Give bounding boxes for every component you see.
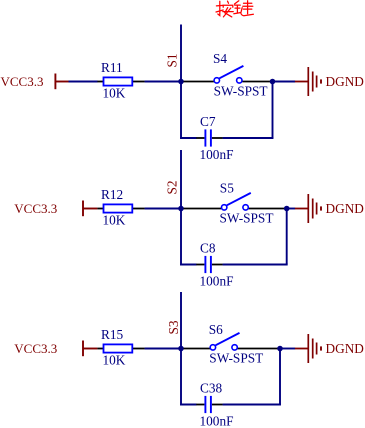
svg-text:S4: S4 — [213, 51, 227, 66]
junction right of S6 — [277, 346, 283, 352]
svg-text:100nF: 100nF — [200, 147, 234, 162]
wire loop right vertical — [279, 349, 281, 405]
junction right of S5 — [284, 206, 290, 212]
svg-text:DGND: DGND — [326, 341, 365, 356]
wire loop bottom right — [223, 404, 281, 406]
svg-text:R15: R15 — [101, 327, 124, 342]
title text 按键 — [216, 1, 253, 17]
svg-text:S5: S5 — [220, 181, 234, 196]
svg-text:DGND: DGND — [326, 74, 365, 89]
resistor R11 — [97, 60, 144, 86]
svg-text:DGND: DGND — [326, 201, 365, 216]
svg-text:S6: S6 — [209, 322, 223, 337]
svg-text:100nF: 100nF — [200, 414, 234, 428]
wire net stub S3 — [180, 292, 182, 349]
ground DGND — [295, 334, 364, 363]
switch S6 — [184, 322, 279, 350]
svg-text:VCC3.3: VCC3.3 — [1, 74, 44, 89]
svg-text:10K: 10K — [103, 86, 126, 101]
svg-text:10K: 10K — [103, 353, 126, 368]
wire switch to DGND — [287, 208, 296, 210]
svg-text:C7: C7 — [200, 114, 216, 129]
svg-text:C8: C8 — [200, 241, 216, 256]
resistor R12 — [97, 187, 144, 213]
wire loop left vertical — [180, 82, 182, 139]
junction node S3 — [178, 346, 184, 352]
svg-text:SW-SPST: SW-SPST — [214, 83, 268, 98]
wire loop bottom right — [223, 264, 288, 266]
capacitor C7 — [196, 114, 223, 147]
wire loop bottom left — [180, 404, 196, 406]
junction node S1 — [178, 79, 184, 85]
svg-text:R12: R12 — [101, 187, 123, 202]
svg-text:10K: 10K — [103, 213, 126, 228]
switch S5 — [184, 181, 285, 210]
wire VCC3.3 to R pin — [69, 81, 98, 83]
ground DGND — [295, 67, 364, 96]
wire loop bottom left — [180, 137, 196, 139]
wire R to node — [145, 208, 181, 210]
wire loop bottom left — [180, 264, 196, 266]
ground DGND — [295, 194, 364, 223]
wire switch to DGND — [280, 348, 295, 350]
svg-text:100nF: 100nF — [200, 274, 234, 289]
junction node S2 — [178, 206, 184, 212]
junction right of S4 — [270, 79, 276, 85]
svg-text:S1: S1 — [164, 53, 179, 67]
power port VCC3.3 — [14, 341, 97, 357]
wire loop bottom right — [223, 137, 274, 139]
switch S4 — [184, 51, 271, 83]
svg-text:SW-SPST: SW-SPST — [220, 210, 274, 225]
capacitor C8 — [196, 241, 223, 274]
svg-text:R11: R11 — [101, 60, 123, 75]
wire loop left vertical — [180, 209, 182, 266]
wire loop left vertical — [180, 349, 182, 406]
svg-text:VCC3.3: VCC3.3 — [14, 341, 57, 356]
capacitor C38 — [196, 381, 223, 414]
svg-text:S2: S2 — [164, 180, 179, 194]
power port VCC3.3 — [1, 74, 70, 90]
svg-text:C38: C38 — [200, 381, 223, 396]
wire switch to DGND — [273, 81, 296, 83]
wire loop right vertical — [286, 209, 288, 265]
power port VCC3.3 — [14, 201, 97, 217]
wire R to node — [145, 348, 181, 350]
wire R to node — [145, 81, 181, 83]
wire net stub S2 — [180, 150, 182, 209]
svg-text:S3: S3 — [166, 320, 181, 334]
svg-text:SW-SPST: SW-SPST — [209, 351, 263, 366]
wire net stub S1 — [180, 25, 182, 82]
resistor R15 — [97, 327, 144, 353]
svg-text:VCC3.3: VCC3.3 — [14, 201, 57, 216]
wire loop right vertical — [272, 82, 274, 139]
